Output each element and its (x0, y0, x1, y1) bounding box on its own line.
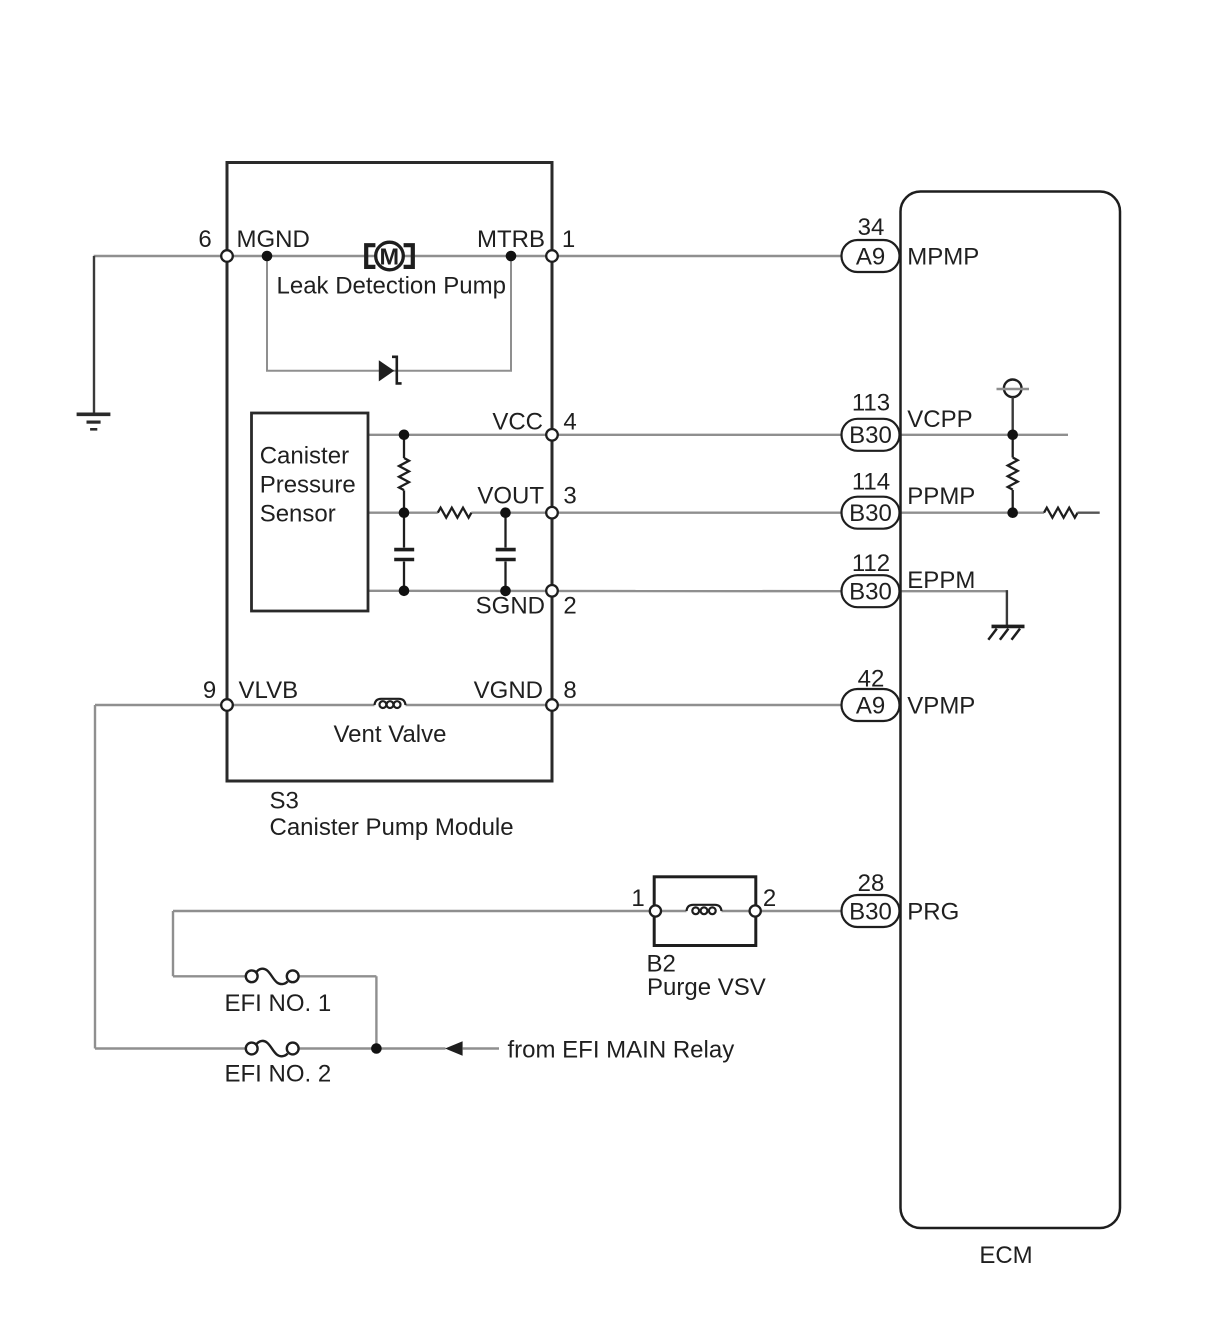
svg-text:VGND: VGND (474, 677, 543, 704)
ground symbol G1 (77, 414, 111, 429)
svg-text:Sensor: Sensor (260, 501, 336, 528)
capacitor C1 (at x=404) (394, 513, 414, 591)
connector oval B30 (pin 113) (842, 419, 900, 451)
svg-text:1: 1 (631, 885, 644, 912)
svg-text:MPMP: MPMP (907, 243, 979, 270)
svg-text:Vent Valve: Vent Valve (334, 721, 447, 748)
svg-text:Leak Detection Pump: Leak Detection Pump (277, 273, 506, 300)
inductor L1 vent valve coil (375, 699, 406, 708)
wire motor bypass loop (diode branch) (267, 256, 511, 371)
wire PPMP inside ECM (901, 512, 1045, 514)
chassis ground symbol at EPPM (988, 626, 1024, 639)
wire riser junction to EFI NO.1 row (375, 976, 377, 1048)
pin 6 MGND open circle (221, 250, 233, 262)
svg-text:EPPM: EPPM (907, 567, 975, 594)
diode D1 in motor loop (379, 357, 402, 384)
pin 2 SGND open circle (546, 585, 558, 597)
pin 4 VCC open circle (546, 429, 558, 441)
svg-text:SGND: SGND (476, 593, 545, 620)
svg-text:B30: B30 (849, 500, 892, 527)
junction dot PPMP / R3 bottom (1007, 507, 1018, 518)
svg-text:B30: B30 (849, 899, 892, 926)
resistor R2 (VOUT series, horizontal) (438, 508, 472, 518)
wire EFI NO.2 row (95, 1047, 246, 1049)
connector oval B30 (pin 28) (842, 895, 900, 927)
wire PRG net: corner to B2 pin 1 (173, 910, 650, 912)
junction dot VOUT / C2 (500, 507, 511, 518)
svg-text:B30: B30 (849, 422, 892, 449)
junction dot VCC / R1 top (399, 430, 410, 441)
fuse EFI NO. 2 (246, 1041, 299, 1056)
pin 9 VLVB open circle (221, 699, 233, 711)
svg-text:B30: B30 (849, 579, 892, 606)
svg-text:3: 3 (563, 483, 576, 510)
resistor R4 (PPMP series, horizontal) (1044, 508, 1078, 518)
svg-text:28: 28 (858, 870, 885, 897)
svg-text:ECM: ECM (979, 1242, 1032, 1269)
wire SGND net: sensor to pin 2 to ECM B30(112) (368, 590, 842, 593)
wire EFI NO.1 row (173, 975, 246, 977)
svg-text:Canister Pump Module: Canister Pump Module (270, 814, 514, 841)
junction dot VCPP pull-up (1007, 430, 1018, 441)
junction dot EFI NO.2 row / riser (371, 1043, 382, 1054)
S3 canister pump module box (227, 163, 552, 782)
svg-text:MTRB: MTRB (477, 226, 545, 253)
canister pressure sensor box (252, 413, 369, 611)
wire left vertical riser VLVB to EFI NO.2 row (94, 705, 96, 1049)
svg-text:MGND: MGND (237, 226, 310, 253)
svg-text:2: 2 (563, 593, 576, 620)
junction dot SGND / C2 (500, 586, 511, 597)
svg-text:VCC: VCC (492, 408, 543, 435)
svg-text:from EFI MAIN Relay: from EFI MAIN Relay (508, 1037, 735, 1064)
svg-text:S3: S3 (270, 788, 299, 815)
wire inside B2 to coil (661, 910, 687, 912)
connector oval A9 (pin 34) (842, 240, 900, 272)
wire B2 pin 2 to ECM B30(28) (761, 910, 842, 912)
junction dot SGND / C1 (399, 586, 410, 597)
svg-text:4: 4 (563, 408, 576, 435)
junction dot VOUT / R1 bottom / C1 (399, 507, 410, 518)
svg-text:34: 34 (858, 214, 885, 241)
wire MGND net: ground stub to pin 6 to MTRB row to ECM A9 (94, 255, 842, 257)
motor M1 leak detection pump (366, 242, 413, 270)
svg-text:Pressure: Pressure (260, 472, 356, 499)
svg-text:Canister: Canister (260, 443, 349, 470)
capacitor C2 (at x=505.5) (496, 513, 516, 591)
wire ground drop from MGND wire (93, 256, 95, 414)
wire stub right of R4 (1078, 512, 1100, 514)
svg-text:9: 9 (203, 677, 216, 704)
wire VLVB/VGND net: left corner to pin 9 to coil to pin 8 to ECM A9(42) (95, 704, 375, 706)
svg-text:6: 6 (198, 226, 211, 253)
wire stub right of arrowhead (463, 1047, 499, 1049)
power supply symbol B+ (997, 380, 1030, 435)
connector oval B30 (pin 114) (842, 497, 900, 529)
pin 8 VGND open circle (546, 699, 558, 711)
svg-text:42: 42 (858, 666, 885, 693)
pin 1 MTRB open circle (546, 250, 558, 262)
svg-text:A9: A9 (856, 692, 885, 719)
resistor R3 (ECM pull-up, vertical) (1008, 435, 1018, 513)
svg-text:VLVB: VLVB (239, 677, 299, 704)
fuse EFI NO. 1 (246, 969, 299, 984)
svg-text:M: M (380, 243, 400, 269)
svg-text:1: 1 (562, 226, 575, 253)
resistor R1 (sensor pull-up, vertical at x=404) (399, 435, 409, 513)
svg-text:VCPP: VCPP (907, 406, 972, 433)
svg-text:112: 112 (852, 550, 890, 577)
svg-text:VPMP: VPMP (907, 692, 975, 719)
wire EPPM inside ECM (901, 590, 1009, 592)
B2 purge VSV box (654, 877, 756, 946)
svg-text:114: 114 (852, 468, 890, 495)
svg-text:8: 8 (563, 677, 576, 704)
svg-text:EFI NO. 1: EFI NO. 1 (225, 990, 332, 1017)
svg-text:EFI NO. 2: EFI NO. 2 (225, 1060, 332, 1087)
connector oval A9 (pin 42) (842, 689, 900, 721)
inductor L2 purge VSV coil (687, 905, 722, 914)
junction dot MGND loop left (262, 251, 273, 262)
svg-text:PRG: PRG (907, 899, 959, 926)
svg-text:A9: A9 (856, 243, 885, 270)
wire VCPP inside ECM (901, 434, 1069, 436)
pin 3 VOUT open circle (546, 507, 558, 519)
svg-text:PPMP: PPMP (907, 483, 975, 510)
wire EPPM drop to chassis ground (1006, 590, 1008, 626)
connector oval B30 (pin 112) (842, 575, 900, 607)
wire riser EFI NO.1 to PRG row (172, 911, 174, 976)
svg-text:VOUT: VOUT (477, 483, 544, 510)
junction dot MTRB loop right (506, 251, 517, 262)
svg-text:Purge VSV: Purge VSV (647, 974, 766, 1001)
wire VOUT net: sensor to pin 3 to ECM B30(114) (368, 512, 438, 514)
B2 pin 1 open circle (650, 905, 661, 916)
svg-text:2: 2 (763, 885, 776, 912)
arrowhead from EFI MAIN Relay (445, 1041, 463, 1056)
svg-text:113: 113 (852, 390, 890, 417)
wire VCC net: sensor to pin 4 to ECM B30(113) (368, 434, 842, 436)
B2 pin 2 open circle (750, 905, 761, 916)
ECM box (901, 192, 1121, 1229)
